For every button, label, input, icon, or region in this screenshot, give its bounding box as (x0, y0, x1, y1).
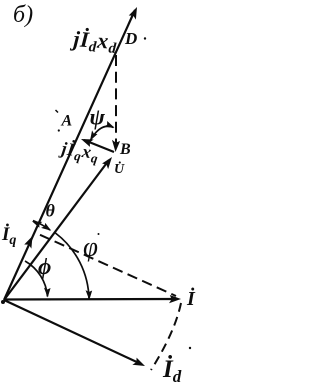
arrowhead dashed at B pointing down (111, 140, 120, 152)
phasor I_q arrowhead on q-axis (24, 234, 36, 248)
phasor I horizontal (4, 298, 176, 301)
svg-text:ϕ: ϕ (38, 254, 51, 279)
speck after D (144, 37, 146, 39)
angle phi big arc (between U line and I) (55, 233, 89, 299)
svg-text:İ: İ (186, 286, 196, 310)
angle theta arc (33, 221, 50, 231)
vector jIq xq from B to A (84, 140, 114, 152)
svg-text:A: A (61, 113, 73, 130)
svg-text:φ: φ (83, 232, 98, 262)
arrowhead of E line at top (128, 5, 140, 19)
svg-text:ψ: ψ (90, 105, 106, 130)
dashed line D to B (115, 55, 117, 146)
speck near phi (98, 233, 100, 235)
tick near A (56, 110, 59, 113)
ink blob at origin (1, 300, 5, 304)
arrowhead of U at B (102, 155, 116, 170)
arrowhead of I_d (132, 357, 146, 370)
dashed line I tip to Id tip (151, 303, 181, 370)
phasor U (voltage) line (4, 160, 109, 300)
svg-text:B: B (119, 141, 131, 158)
svg-text:U̇: U̇ (114, 160, 125, 177)
phasor I_d down-right (4, 300, 141, 364)
dot below A (58, 129, 60, 131)
svg-text:θ: θ (46, 201, 56, 221)
arrowhead of I (169, 295, 181, 303)
dashed parallelogram line Iq tip to I tip (40, 235, 176, 296)
wire: q-axis line O to top arrow (4, 10, 135, 300)
arrowhead jIq xq at A (80, 135, 94, 147)
svg-text:D: D (124, 29, 137, 48)
angle phi small arc (between U and I) (25, 261, 48, 297)
angle psi arc at B (91, 126, 114, 140)
svg-text:б): б) (13, 2, 33, 28)
